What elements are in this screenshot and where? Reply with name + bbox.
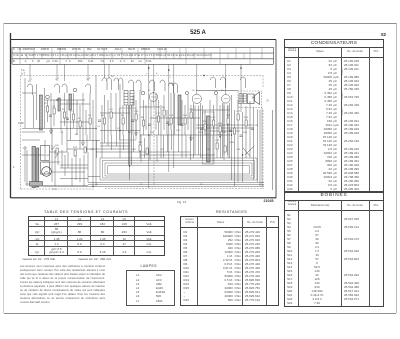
svg-text:S22: S22 [46, 155, 51, 157]
svg-text:1: 1 [31, 79, 33, 81]
svg-text:c: c [170, 77, 172, 79]
svg-text:C3: C3 [52, 106, 56, 108]
svg-text:S5: S5 [78, 118, 81, 120]
svg-text:S20: S20 [55, 145, 60, 147]
svg-text:S1: S1 [28, 81, 31, 83]
svg-text:C5: C5 [60, 132, 64, 134]
svg-text:R12: R12 [132, 149, 137, 151]
svg-text:C9: C9 [88, 115, 92, 117]
svg-text:2: 2 [58, 78, 60, 80]
svg-text:R15: R15 [244, 117, 249, 119]
svg-text:C28: C28 [254, 125, 259, 127]
svg-text:a: a [146, 73, 148, 75]
svg-text:C14: C14 [134, 111, 139, 113]
svg-text:C26: C26 [226, 115, 231, 117]
svg-text:A.T.: A.T. [21, 72, 26, 76]
svg-text:S8: S8 [121, 115, 124, 117]
svg-text:R8: R8 [162, 107, 166, 109]
svg-text:C31: C31 [160, 149, 165, 151]
svg-text:b: b [156, 73, 158, 75]
svg-text:G: G [267, 99, 270, 103]
svg-text:C30: C30 [138, 142, 143, 144]
svg-text:S13: S13 [183, 115, 188, 117]
svg-text:2: 2 [13, 165, 15, 169]
svg-text:S2: S2 [44, 103, 47, 105]
svg-text:C19: C19 [169, 115, 174, 117]
svg-text:220V: 220V [52, 189, 58, 191]
svg-text:C32: C32 [215, 140, 220, 142]
svg-text:T.a: T.a [21, 68, 25, 72]
svg-text:R16: R16 [73, 147, 78, 149]
svg-text:C29: C29 [90, 149, 95, 151]
svg-text:C24: C24 [211, 117, 216, 119]
svg-text:R10: R10 [199, 132, 204, 134]
svg-text:R1: R1 [62, 109, 66, 111]
svg-text:C27: C27 [236, 111, 241, 113]
svg-text:S12: S12 [176, 130, 181, 132]
svg-text:C7: C7 [71, 111, 75, 113]
svg-text:L4: L4 [192, 90, 195, 92]
svg-text:C17: C17 [156, 113, 161, 115]
svg-text:3: 3 [89, 78, 91, 80]
svg-text:C.40: C.40 [18, 121, 24, 125]
svg-text:C33: C33 [236, 149, 241, 151]
svg-text:C4: C4 [97, 126, 101, 128]
svg-text:L2: L2 [148, 90, 151, 92]
svg-text:R15: R15 [243, 132, 248, 134]
svg-text:R6: R6 [141, 117, 145, 119]
svg-text:C11: C11 [109, 109, 114, 111]
svg-text:R3: R3 [101, 115, 105, 117]
svg-text:S6: S6 [111, 76, 114, 78]
svg-text:C25: C25 [222, 132, 227, 134]
svg-text:R2: R2 [75, 134, 79, 136]
svg-text:R14: R14 [230, 142, 235, 144]
